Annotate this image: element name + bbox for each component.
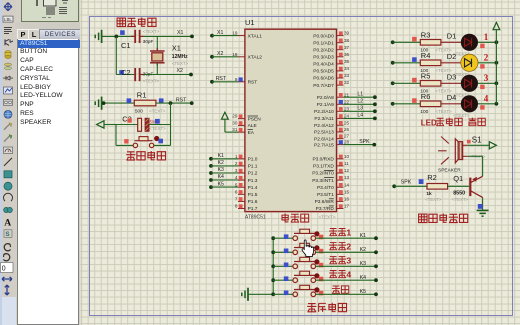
svg-text:P3.3/INT1: P3.3/INT1 <box>312 178 334 184</box>
net label K3 <box>360 261 366 267</box>
svg-text:4: 4 <box>346 270 351 280</box>
svg-text:30pF: 30pF <box>143 39 154 44</box>
svg-text:19: 19 <box>232 31 238 36</box>
speaker S1 <box>438 137 468 165</box>
pin 25 (P2.4/A12) right <box>314 120 350 129</box>
value 100 (R3) <box>420 48 428 54</box>
wire XTAL2 stub <box>210 51 238 59</box>
svg-text:24: 24 <box>344 114 350 119</box>
svg-text:1: 1 <box>346 228 351 238</box>
svg-text:25: 25 <box>344 120 350 125</box>
label R6 <box>421 92 431 101</box>
svg-text:R6: R6 <box>421 92 431 101</box>
mouse hand cursor <box>302 240 314 257</box>
pin 15 (P3.5/T1) right <box>317 189 350 198</box>
title 晶振电路 (crystal oscillator circuit) <box>117 18 156 27</box>
red marker button 2 <box>319 249 324 254</box>
label 选手4 red <box>329 270 351 280</box>
svg-text:K4: K4 <box>360 275 366 281</box>
svg-text:P0.6/AD6: P0.6/AD6 <box>313 76 334 82</box>
wire C3 row <box>116 124 171 126</box>
svg-text:13: 13 <box>344 175 350 180</box>
svg-text:26: 26 <box>344 127 350 132</box>
resistor R4 <box>420 60 441 66</box>
svg-text:35: 35 <box>344 59 350 64</box>
svg-text:3: 3 <box>484 73 489 83</box>
text placeholder D1 <box>453 51 470 56</box>
device list <box>17 39 80 325</box>
wire LED to power rail <box>478 40 498 44</box>
svg-text:L3: L3 <box>357 106 363 112</box>
svg-text:P1.0: P1.0 <box>248 157 258 163</box>
op-amp U1 AT89C51 chip body <box>245 29 337 211</box>
net label RST <box>176 98 187 104</box>
pin 27 (P2.6/A14) right <box>314 134 350 143</box>
junction dot bus row 4 <box>271 278 275 282</box>
value 30pF (C1) <box>143 39 154 44</box>
label AT89C51 <box>245 214 266 220</box>
pin 4 (P1.3) left <box>235 175 258 184</box>
svg-text:100: 100 <box>420 109 428 115</box>
LED D3 <box>461 75 478 92</box>
label R1 <box>137 91 147 100</box>
pin 8 (P1.7) left <box>235 204 258 213</box>
label C3 <box>122 114 132 123</box>
junction dot bus row 2 <box>271 250 275 254</box>
red marker after LED D2 <box>480 64 484 68</box>
value 8550 <box>453 190 465 196</box>
red marker <box>412 98 417 103</box>
svg-text:D4: D4 <box>447 93 457 102</box>
pin 35 (P0.4/AD4) right <box>313 59 349 68</box>
sheet border <box>89 16 513 316</box>
svg-text:R2: R2 <box>427 173 437 182</box>
pin 2 (P1.1) left <box>235 161 258 170</box>
pin 30 (ALE) left <box>232 121 256 130</box>
wire SPK to R2 <box>392 180 427 189</box>
svg-text:34: 34 <box>344 66 350 71</box>
svg-text:SPEAKER: SPEAKER <box>438 167 461 173</box>
svg-text:<TEXT>: <TEXT> <box>435 109 452 114</box>
net label K1 <box>360 233 366 239</box>
wire R1 to RST stub <box>156 102 192 104</box>
value 1k <box>426 191 432 197</box>
wire left branch down <box>116 36 135 74</box>
pin 9 (RST) left <box>235 77 257 86</box>
resistor R6 <box>420 101 441 107</box>
pin 23 (P2.2/A10) right <box>314 106 350 115</box>
text placeholder D4 <box>453 113 470 118</box>
wire left vertical to reset button <box>116 125 133 146</box>
power rail vertical <box>495 30 497 104</box>
push button 3 <box>293 257 316 268</box>
pin 22 (P2.1/A9) right <box>317 99 350 108</box>
pin 38 (P0.1/AD1) right <box>313 38 349 47</box>
net label K5 <box>360 289 366 295</box>
label Q1 <box>453 174 463 183</box>
svg-text:K4: K4 <box>218 174 224 180</box>
wire K3 stub to P1.2 <box>209 167 238 175</box>
svg-text:10: 10 <box>344 154 350 159</box>
pin 24 (P2.3/A11) right <box>314 114 349 123</box>
red marker C3 <box>127 118 131 122</box>
svg-text:Q1: Q1 <box>453 174 463 183</box>
svg-text:39: 39 <box>344 31 350 36</box>
svg-text:U1: U1 <box>245 18 255 27</box>
pin 39 (P0.0/AD0) right <box>313 31 349 40</box>
svg-text:4: 4 <box>484 93 489 103</box>
crystal X1 <box>150 48 165 66</box>
svg-text:X1: X1 <box>177 30 183 36</box>
label D4 <box>447 93 457 102</box>
svg-text:3: 3 <box>346 256 351 266</box>
red marker after LED D4 <box>480 105 484 109</box>
wire bus to button 4 <box>273 279 293 281</box>
svg-text:P3.5/T1: P3.5/T1 <box>317 192 334 198</box>
label C1 <box>121 41 131 50</box>
svg-text:7: 7 <box>235 197 238 202</box>
svg-text:2: 2 <box>235 161 238 166</box>
pin 5 (P1.4) left <box>235 182 258 191</box>
maroon origin dot button 3 <box>314 259 319 264</box>
svg-text:RST: RST <box>248 80 258 86</box>
text placeholder R5 <box>435 89 452 94</box>
label R5 <box>421 71 431 80</box>
wire ground to R1 <box>102 102 135 104</box>
text placeholder X1 <box>172 61 189 66</box>
text placeholder C2 <box>143 79 160 84</box>
maroon origin dot button 5 <box>314 287 319 292</box>
junction dot bus row 5 <box>271 292 275 296</box>
LED D4 <box>461 95 478 112</box>
resistor R1 <box>134 100 156 106</box>
svg-text:K2: K2 <box>218 160 224 166</box>
pin 3 (P1.2) left <box>235 168 258 177</box>
svg-text:P0.7/AD7: P0.7/AD7 <box>313 83 334 89</box>
label 选手2 red <box>329 242 351 252</box>
wire reset button to vertical <box>154 144 171 146</box>
svg-text:AT89C51: AT89C51 <box>245 214 266 220</box>
junction dot bus row 1 <box>271 236 275 240</box>
svg-text:P2.4/A12: P2.4/A12 <box>314 123 334 129</box>
LED D1 <box>461 34 478 51</box>
wire resistor to LED D2 <box>441 62 461 64</box>
wire ground to C1 <box>102 35 135 37</box>
wire LED to power rail <box>478 81 498 85</box>
red marker button 4 <box>319 277 324 282</box>
ground (crystal circuit, rotated left) <box>95 30 101 43</box>
svg-text:31: 31 <box>232 127 238 132</box>
svg-text:P1.6: P1.6 <box>248 199 258 205</box>
svg-text:K5: K5 <box>218 181 224 187</box>
power terminal up arrow (LED rail) <box>493 22 500 29</box>
svg-text:<TEXT>: <TEXT> <box>149 126 166 131</box>
title 蜂鸣器电路 (buzzer circuit) <box>419 214 468 223</box>
label S1 <box>467 136 482 145</box>
pin 36 (P0.3/AD3) right <box>313 52 349 61</box>
text placeholder R4 <box>435 68 452 73</box>
wire L1 from P2.0 <box>343 91 376 99</box>
pin 21 (P2.0/A8) right <box>317 92 350 101</box>
red number 4 <box>484 93 489 103</box>
wire K1 stub to P1.0 <box>209 153 238 161</box>
svg-text:3: 3 <box>235 168 238 173</box>
svg-text:D3: D3 <box>447 73 457 82</box>
transistor Q1 PNP 8550 <box>470 176 482 197</box>
svg-text:500: 500 <box>135 108 143 114</box>
net label X1 <box>177 30 183 36</box>
svg-text:27: 27 <box>344 134 350 139</box>
LED D2 <box>461 54 478 71</box>
schematic overview window <box>21 0 79 22</box>
blue marker reset button <box>158 139 163 144</box>
label 选手1 red <box>329 228 351 238</box>
resistor R2 <box>427 184 448 190</box>
svg-text:K3: K3 <box>360 261 366 267</box>
wire button 5 to K5 <box>316 292 378 296</box>
pin 7 (P1.6) left <box>235 197 258 206</box>
svg-text:RST: RST <box>176 98 187 104</box>
svg-text:P1.1: P1.1 <box>248 164 258 170</box>
svg-text:1: 1 <box>235 154 238 159</box>
red number 1 <box>484 32 489 42</box>
svg-text:38: 38 <box>344 38 350 43</box>
svg-text:P0.0/AD0: P0.0/AD0 <box>313 33 334 39</box>
maroon origin dot reset button <box>154 136 159 141</box>
red marker button 1 <box>319 235 324 240</box>
svg-text:L2: L2 <box>357 99 363 105</box>
pin 32 (P0.7/AD7) right <box>313 80 349 89</box>
red marker after LED D3 <box>480 85 484 89</box>
wire L2 from P2.1 <box>343 99 376 107</box>
svg-text:P3.4/T0: P3.4/T0 <box>317 185 334 191</box>
text placeholder R2 <box>425 197 442 202</box>
svg-text:30: 30 <box>232 121 238 126</box>
text placeholder D2 <box>453 72 470 77</box>
pin 19 (XTAL1) left <box>232 31 262 40</box>
terminal dot RST net <box>190 101 194 105</box>
pin 28 (P2.7/A15) right <box>314 140 350 149</box>
svg-text:EA: EA <box>248 130 255 136</box>
svg-text:11: 11 <box>344 161 349 166</box>
svg-text:P2.5/A13: P2.5/A13 <box>314 130 334 136</box>
text placeholder R1 <box>149 108 166 113</box>
svg-text:ALE: ALE <box>248 123 257 129</box>
power terminal left arrow <box>97 121 116 128</box>
label 复位 red <box>332 286 349 293</box>
svg-text:P0.2/AD2: P0.2/AD2 <box>313 47 334 53</box>
svg-text:R5: R5 <box>421 71 431 80</box>
svg-text:12: 12 <box>344 168 350 173</box>
wire speaker to power arrow <box>468 144 490 146</box>
value C3 red <box>150 120 158 125</box>
svg-text:16: 16 <box>344 197 350 202</box>
svg-text:<TEXT>: <TEXT> <box>453 113 470 118</box>
pin 34 (P0.5/AD5) right <box>313 66 349 75</box>
ground (button circuit) <box>242 288 248 301</box>
label D1 <box>447 32 457 41</box>
wire vertical R1-node down <box>170 103 172 145</box>
svg-text:R4: R4 <box>421 51 431 60</box>
power terminal up arrow at EA <box>222 112 239 132</box>
svg-text:P2.6/A14: P2.6/A14 <box>314 136 334 142</box>
svg-text:PSEN: PSEN <box>248 116 262 122</box>
svg-text:R1: R1 <box>137 91 147 100</box>
label 选手3 red <box>329 256 351 266</box>
svg-text:S1: S1 <box>472 136 482 145</box>
blue marker row 1 <box>284 234 289 239</box>
red number 2 <box>484 52 489 62</box>
wire L4 from P2.3 <box>343 113 376 121</box>
blue marker collector <box>478 204 483 209</box>
object selector panel <box>16 0 80 325</box>
svg-text:X1: X1 <box>217 30 223 36</box>
svg-text:XTAL2: XTAL2 <box>248 55 263 61</box>
label D3 <box>447 73 457 82</box>
svg-text:P1.7: P1.7 <box>248 206 258 212</box>
svg-text:X2: X2 <box>177 68 183 74</box>
svg-text:9: 9 <box>235 77 238 82</box>
svg-text:C2: C2 <box>121 68 131 77</box>
P / L buttons and DEVICES header <box>16 29 80 39</box>
red marker <box>412 37 417 42</box>
blue marker row 4 <box>284 276 289 281</box>
label X1 (crystal) <box>172 43 181 52</box>
pin 1 (P1.0) left <box>235 154 258 163</box>
blue marker right of R1 <box>159 98 164 103</box>
capacitor C1 <box>131 30 144 43</box>
pin 14 (P3.4/T0) right <box>317 182 350 191</box>
pin 17 (P3.7/RD) right <box>316 204 350 213</box>
net label K2 <box>360 247 366 253</box>
svg-text:P0.3/AD3: P0.3/AD3 <box>313 55 334 61</box>
blue marker C3 <box>155 119 160 124</box>
svg-text:SPK: SPK <box>401 180 412 186</box>
svg-text:22: 22 <box>344 99 350 104</box>
svg-text:P3.0/RXD: P3.0/RXD <box>312 157 334 163</box>
blue marker <box>120 30 125 35</box>
value 30pF (C2) <box>143 72 154 77</box>
svg-text:P2.2/A10: P2.2/A10 <box>314 109 334 115</box>
svg-text:SPK: SPK <box>359 139 370 145</box>
pin 37 (P0.2/AD2) right <box>313 45 349 54</box>
wire bus to button 2 <box>273 251 293 253</box>
net label X2 <box>177 68 183 74</box>
blue marker row 3 <box>284 263 289 268</box>
value 100 (R5) <box>420 89 428 95</box>
red marker <box>412 78 417 83</box>
svg-text:RST: RST <box>216 76 227 82</box>
svg-text:P3.1/TXD: P3.1/TXD <box>313 164 334 170</box>
label SPEAKER <box>438 167 461 173</box>
wire C1 to X1 stub <box>144 35 193 37</box>
svg-text:P3.6/WR: P3.6/WR <box>315 199 335 205</box>
svg-text:P2.0/A8: P2.0/A8 <box>317 95 334 101</box>
svg-text:18: 18 <box>232 52 238 57</box>
svg-text:P1.2: P1.2 <box>248 171 258 177</box>
wire R2 to Q1 base <box>448 185 470 187</box>
svg-text:P0.1/AD1: P0.1/AD1 <box>313 40 334 46</box>
svg-text:D2: D2 <box>447 52 457 61</box>
rotate / mirror controls <box>4 244 10 251</box>
pin 31 (EA) left <box>232 127 255 136</box>
svg-text:LED: LED <box>421 118 437 127</box>
pin 26 (P2.5/A13) right <box>314 127 350 136</box>
label R3 <box>421 30 431 39</box>
capacitor C2 <box>135 68 143 81</box>
svg-text:P1.3: P1.3 <box>248 178 258 184</box>
svg-text:14: 14 <box>344 182 350 187</box>
svg-text:<TEXT>: <TEXT> <box>452 197 469 202</box>
wire button 1 to K1 <box>316 236 378 240</box>
junction node RST/vertical <box>169 101 173 105</box>
red marker button 3 <box>319 263 324 268</box>
maroon origin dot button 1 <box>314 231 319 236</box>
svg-text:<TEXT>: <TEXT> <box>319 215 336 220</box>
wire K5 stub to P1.4 <box>209 181 238 189</box>
svg-text:17: 17 <box>344 204 350 209</box>
svg-text:R3: R3 <box>421 30 431 39</box>
svg-text:<TEXT>: <TEXT> <box>172 61 189 66</box>
wire Q1 collector to ground <box>482 197 484 210</box>
svg-text:A: A <box>4 218 11 228</box>
red marker after LED D1 <box>480 44 484 48</box>
value 500 <box>135 108 143 114</box>
blue marker left of R2 <box>419 179 424 184</box>
pin 13 (P3.3/INT1) right <box>312 175 349 184</box>
text placeholder C1 <box>143 29 160 34</box>
wire button 3 to K3 <box>316 264 378 268</box>
svg-text:8: 8 <box>235 204 238 209</box>
pin 11 (P3.1/TXD) right <box>313 161 349 170</box>
text placeholder chip <box>319 215 336 220</box>
svg-text:<TEXT>: <TEXT> <box>425 197 442 202</box>
svg-text:P2.3/A11: P2.3/A11 <box>314 116 334 122</box>
resistor R5 <box>420 81 441 87</box>
svg-text:23: 23 <box>344 106 350 111</box>
resistor R3 <box>420 40 441 46</box>
svg-text:P0.4/AD4: P0.4/AD4 <box>313 62 334 68</box>
terminal dot X1 net <box>190 35 194 39</box>
push button 1 <box>293 229 316 240</box>
wire L3 from P2.2 <box>343 106 376 114</box>
red number 3 <box>484 73 489 83</box>
value 100 (R6) <box>420 109 428 115</box>
junction dot bus row 3 <box>271 264 275 268</box>
text placeholder Q1 <box>452 197 469 202</box>
label U1 <box>245 18 255 27</box>
svg-text:32: 32 <box>344 80 350 85</box>
svg-text:1: 1 <box>484 32 489 42</box>
pin 16 (P3.6/WR) right <box>315 197 350 206</box>
wire K2 stub to P1.1 <box>209 160 238 168</box>
wire resistor to LED D3 <box>441 82 461 84</box>
svg-text:K2: K2 <box>360 247 366 253</box>
maroon origin dot button 2 <box>314 245 319 250</box>
svg-text:XTAL1: XTAL1 <box>248 33 263 39</box>
junction dot <box>102 101 106 105</box>
maroon origin dot button 4 <box>314 273 319 278</box>
wire LED to power rail <box>478 102 498 106</box>
wire bus to button 1 <box>273 237 293 239</box>
svg-text:P2.7/A15: P2.7/A15 <box>314 142 334 148</box>
text placeholder C3 <box>149 126 166 131</box>
svg-text:2: 2 <box>346 242 351 252</box>
bus vertical wire <box>272 238 274 294</box>
svg-text:6: 6 <box>235 189 238 194</box>
svg-text:LBL: LBL <box>4 17 12 22</box>
pin 10 (P3.0/RXD) right <box>312 154 349 163</box>
